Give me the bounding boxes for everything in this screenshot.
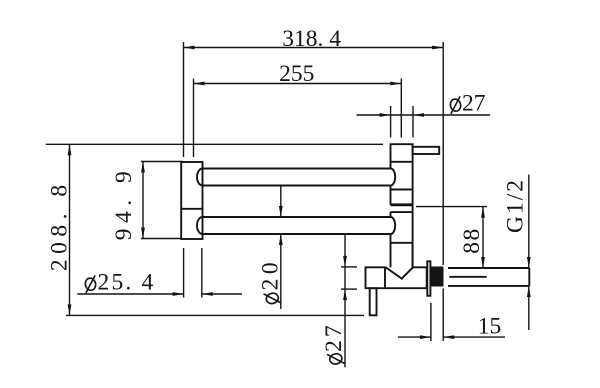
lower block top line: [391, 211, 413, 213]
dimension phi25.4 line left tail: [77, 293, 183, 295]
dimension 15 line left tail: [398, 336, 431, 338]
svg-text:27: 27: [321, 322, 347, 352]
88 top extension line: [416, 206, 487, 208]
G1/2 up arrow: [527, 286, 531, 297]
extension line phi27 top right: [412, 106, 414, 138]
94.9 bottom arrow: [141, 228, 145, 239]
phi27 bottom top tick: [341, 266, 357, 268]
dimension 94.9 line: [142, 162, 144, 239]
208.8 top arrow: [68, 144, 72, 155]
extension line right of 255 / middle of top phi27: [400, 79, 402, 138]
svg-text:255: 255: [279, 61, 314, 87]
extension line right of 318.4 (lower segment to 15 dim): [442, 289, 444, 342]
dimension 255 right arrow: [390, 82, 401, 86]
svg-text:15: 15: [478, 314, 502, 340]
phi20 down arrow: [279, 206, 283, 217]
phi25.4 right extension line: [201, 248, 203, 298]
dimension phi20 line lower segment: [280, 234, 282, 309]
svg-text:25. 4: 25. 4: [98, 269, 156, 295]
top reference line: [46, 143, 383, 145]
valve body outline: [366, 267, 427, 288]
svg-text:208. 8: 208. 8: [47, 179, 73, 271]
15 right arrow: [443, 335, 454, 339]
15 left extension line: [430, 303, 432, 341]
svg-text:88: 88: [459, 227, 485, 254]
94.9 top arrow: [141, 162, 145, 173]
wall flange: [427, 261, 430, 296]
dimension 208.8 line: [69, 144, 71, 315]
dimension phi25.4 line right tail: [202, 293, 242, 295]
lower tube top line: [203, 216, 391, 218]
svg-text:318. 4: 318. 4: [282, 26, 341, 52]
88 top arrow: [481, 207, 485, 218]
phi27 top left arrow: [380, 113, 391, 117]
upper tube top line: [203, 168, 391, 170]
94.9 bottom extension line: [141, 238, 182, 240]
dimension 255 left arrow: [194, 82, 205, 86]
upper tube bottom line: [203, 185, 391, 187]
phi20 up arrow: [279, 234, 283, 245]
wall block (black square): [431, 267, 444, 287]
swivel column left edge segment tube-to-midblock: [390, 186, 392, 190]
dimension 318.4 left arrow: [184, 46, 195, 50]
inlet pipe thread line: [449, 276, 486, 278]
left bar division line: [181, 208, 202, 210]
middle block top line: [391, 189, 413, 191]
dimension phi27 top line: [357, 114, 491, 116]
G1/2 down arrow: [527, 257, 531, 268]
dimension 15 line right tail: [443, 336, 505, 338]
dimension 318.4 line: [184, 47, 444, 49]
extension line phi27 top left: [390, 106, 392, 138]
94.9 top extension line: [141, 161, 182, 163]
valve body division line: [384, 267, 386, 288]
phi25.4 left arrow: [173, 292, 184, 296]
swivel column top cap block: [391, 144, 413, 162]
label phi20 (rotated): [258, 258, 284, 305]
neck left edge: [390, 243, 392, 267]
extension line right of 318.4 (upper segment): [442, 42, 444, 265]
lower block left edge lower segment: [390, 234, 392, 243]
dimension phi27 bottom line: [344, 234, 346, 368]
88 bottom arrow: [481, 257, 485, 268]
svg-text:94. 9: 94. 9: [111, 166, 137, 241]
label phi25.4: [84, 269, 156, 295]
phi25.4 right arrow: [202, 292, 213, 296]
extension line left of 255: [193, 79, 195, 158]
phi27 bottom up arrow: [343, 289, 347, 300]
phi27 bottom bottom tick: [341, 288, 357, 290]
floor reference line: [66, 314, 364, 316]
swivel column left edge segment cap-to-tube: [390, 162, 392, 169]
upper tube right cap arc: [391, 169, 396, 186]
handle lever: [413, 147, 440, 154]
middle block left edge: [390, 190, 392, 206]
extension line left of 318.4: [183, 42, 185, 157]
swivel column right edge line: [412, 162, 414, 267]
label phi27 bottom (rotated): [321, 322, 347, 365]
svg-text:20: 20: [258, 258, 284, 291]
dimension G1/2 line lower segment: [528, 286, 530, 330]
left end bar of faucet: [181, 162, 202, 239]
dimension 318.4 right arrow: [432, 46, 443, 50]
dimension 255 line: [194, 83, 402, 85]
inlet pipe end cap line: [528, 268, 530, 286]
inlet pipe bottom line: [448, 285, 529, 287]
valve handle: [370, 288, 377, 315]
lower tube bottom line: [203, 233, 391, 235]
15 left arrow: [420, 335, 431, 339]
lower block bottom line: [391, 242, 413, 244]
lower tube left cap arc: [197, 217, 203, 234]
neck right edge: [412, 243, 414, 267]
label phi27 top: [449, 90, 486, 116]
lower block left edge upper segment: [390, 212, 392, 217]
inlet pipe top line: [448, 267, 529, 269]
208.8 bottom arrow: [68, 304, 72, 315]
middle block thick bottom band: [391, 203, 413, 206]
valve body V notch: [386, 267, 413, 278]
dimension 88 line: [482, 207, 484, 268]
phi27 bottom down arrow: [343, 256, 347, 267]
phi27 top right arrow: [413, 113, 424, 117]
upper tube left cap arc: [197, 169, 203, 186]
phi25.4 left extension line: [183, 248, 185, 298]
lower tube right cap arc: [391, 217, 396, 234]
dimension phi20 line upper segment: [280, 186, 282, 217]
svg-text:27: 27: [462, 90, 486, 116]
svg-text:G1/2: G1/2: [503, 178, 529, 233]
dimension G1/2 line upper segment: [528, 175, 530, 269]
